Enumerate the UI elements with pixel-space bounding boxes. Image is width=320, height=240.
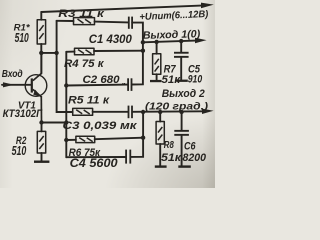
svg-text:C4 5600: C4 5600 (70, 158, 119, 170)
resistor R4 (75, 48, 95, 55)
arrow +U terminal (201, 3, 214, 9)
node collector to phase network junction (54, 51, 58, 55)
wire output1 node vertical (142, 42, 144, 50)
node R7 top junction (154, 40, 158, 44)
node output2 R6 junction (141, 136, 145, 140)
ground under C5 (176, 80, 187, 82)
svg-text:C3 0,039 мк: C3 0,039 мк (63, 120, 139, 132)
wire C4 branch line (66, 138, 143, 158)
svg-text:R5 11 к: R5 11 к (68, 94, 111, 106)
wire output2 vertical to R6 C4 (142, 112, 144, 138)
capacitor C5 (174, 52, 189, 54)
wire node A vertical collector to R3 line and R5 line (57, 21, 67, 112)
wire +U supply rail (41, 6, 201, 12)
arrow input terminal (3, 82, 14, 87)
wire emitter rail vertical (65, 52, 67, 157)
svg-text:R3 11 к: R3 11 к (58, 8, 105, 20)
svg-text:510: 510 (15, 30, 30, 45)
wire R7 leads (156, 42, 158, 80)
resistor R6 (76, 136, 95, 142)
wire R5-C3 output2 line (66, 110, 204, 113)
node emitter junction (39, 120, 43, 124)
node output1 R4 junction (141, 49, 145, 53)
svg-text:51к: 51к (162, 74, 182, 86)
wire emitter vertical to R2 (41, 123, 43, 132)
svg-text:R4 75 к: R4 75 к (64, 58, 105, 70)
wire R4 branch line (66, 51, 143, 52)
wire R8 leads (159, 112, 161, 166)
resistor R2 (37, 131, 45, 153)
capacitor C4 (125, 150, 127, 164)
resistor R5 (73, 108, 93, 115)
wire R1 bottom lead to collector node (40, 44, 42, 53)
svg-text:C1 4300: C1 4300 (89, 34, 133, 46)
resistor R7 (153, 54, 161, 74)
node emitter rail R6 junction (64, 138, 68, 142)
svg-text:C6: C6 (184, 140, 196, 152)
wire C2 branch line (66, 51, 143, 86)
resistor R3 (74, 18, 95, 25)
resistor R8 (156, 122, 164, 145)
capacitor C3 (128, 106, 130, 119)
ground under R2 (34, 161, 49, 163)
capacitor C1 (128, 17, 130, 29)
svg-text:„: „ (121, 77, 126, 86)
node emitter rail C2 junction (64, 83, 68, 87)
arrow output1 terminal (195, 38, 207, 43)
arrow output2 terminal (202, 109, 214, 114)
svg-text:R6 75к: R6 75к (69, 147, 102, 159)
wire input base lead (2, 84, 31, 86)
svg-text:(120 град.): (120 град.) (145, 101, 209, 112)
wire R2 bottom lead (41, 153, 43, 161)
svg-text:51к: 51к (161, 152, 183, 164)
capacitor C6 (174, 130, 189, 132)
wire R6 branch line (66, 138, 143, 140)
svg-text:C2 680: C2 680 (83, 74, 120, 86)
node collector-R1 junction (39, 51, 43, 55)
wire C5 leads (180, 41, 182, 80)
wire C6 leads (181, 112, 183, 166)
node C6 top junction (179, 110, 183, 114)
svg-text:КТ3102Г: КТ3102Г (3, 108, 44, 120)
svg-text:Выход 1(0): Выход 1(0) (143, 28, 201, 42)
svg-text:R8: R8 (164, 139, 174, 151)
svg-text:Вход: Вход (2, 69, 23, 80)
wire collector node horizontal (41, 52, 56, 54)
wire R1 top lead (40, 12, 42, 20)
resistor R1 (37, 20, 45, 44)
svg-text:510: 510 (12, 143, 27, 158)
wire R3-C1 branch top line (57, 21, 143, 43)
capacitor C2 (127, 78, 129, 91)
node emitter rail junction (64, 120, 68, 124)
wire emitter line (42, 122, 67, 124)
wire output1 line (143, 41, 196, 43)
transistor VT1 (25, 53, 47, 123)
svg-text:910: 910 (188, 74, 203, 86)
node R8 top junction (158, 110, 162, 114)
svg-text:Выход 2: Выход 2 (162, 88, 205, 100)
ground under R7 (150, 80, 162, 82)
ground under R8 (155, 165, 167, 167)
node output1 C1 junction (141, 40, 145, 44)
node C5 top junction (179, 39, 183, 43)
svg-text:+Uпит(6...12В): +Uпит(6...12В) (139, 9, 208, 23)
node output2 C3 junction (141, 110, 145, 114)
wire collector vertical (40, 53, 42, 74)
svg-text:8200: 8200 (183, 152, 207, 164)
ground under C6 (178, 165, 191, 167)
